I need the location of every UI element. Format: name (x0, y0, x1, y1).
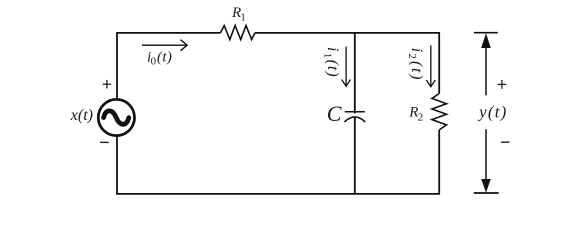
capacitor C plate bottom (curved) (344, 117, 365, 122)
wire top (right segment) (255, 32, 440, 34)
svg-text:x(t): x(t) (70, 107, 93, 124)
svg-text:C: C (327, 101, 342, 126)
node - (right minus) (501, 141, 510, 143)
wire left lower (116, 135, 118, 194)
y(t) dimension top bar (474, 32, 498, 34)
y(t) dimension shaft upper (485, 46, 487, 95)
wire middle branch upper (354, 33, 356, 114)
svg-text:i: i (408, 48, 425, 52)
svg-text:1: 1 (240, 12, 246, 24)
resistor R1 (220, 26, 255, 40)
wire right branch lower (438, 130, 440, 194)
source U1 x(t) circle (98, 99, 134, 135)
label i2(t) rotated (406, 48, 425, 81)
wire left upper (116, 33, 118, 100)
arrow i0(t) (142, 40, 187, 51)
svg-text:1: 1 (321, 53, 333, 59)
y(t) down arrowhead (481, 179, 491, 193)
y(t) up arrowhead (481, 33, 491, 48)
y(t) dimension bottom bar (474, 192, 499, 194)
svg-text:2: 2 (418, 111, 424, 123)
svg-text:(t): (t) (324, 60, 341, 78)
resistor R2 (432, 94, 447, 130)
source sine wave (104, 111, 129, 125)
arrow i2(t) (426, 45, 435, 86)
y(t) dimension shaft lower (485, 129, 487, 180)
node + (right plus) (498, 80, 507, 89)
node + (left plus) (103, 80, 112, 89)
wire top (left segment) (116, 32, 220, 34)
svg-text:(t): (t) (157, 49, 172, 65)
label i1(t) rotated (321, 47, 340, 78)
wire bottom (116, 193, 440, 195)
svg-text:(t): (t) (408, 61, 425, 81)
wire right branch upper (438, 33, 440, 94)
svg-text:y(t): y(t) (477, 102, 507, 121)
label i0(t) (147, 49, 172, 67)
svg-text:2: 2 (406, 53, 418, 59)
capacitor C plate top (345, 111, 365, 113)
node - (left minus) (100, 141, 109, 143)
arrow i1(t) (342, 47, 351, 87)
wire middle branch lower (354, 117, 356, 194)
svg-text:i: i (324, 47, 341, 51)
svg-text:0: 0 (151, 56, 157, 68)
